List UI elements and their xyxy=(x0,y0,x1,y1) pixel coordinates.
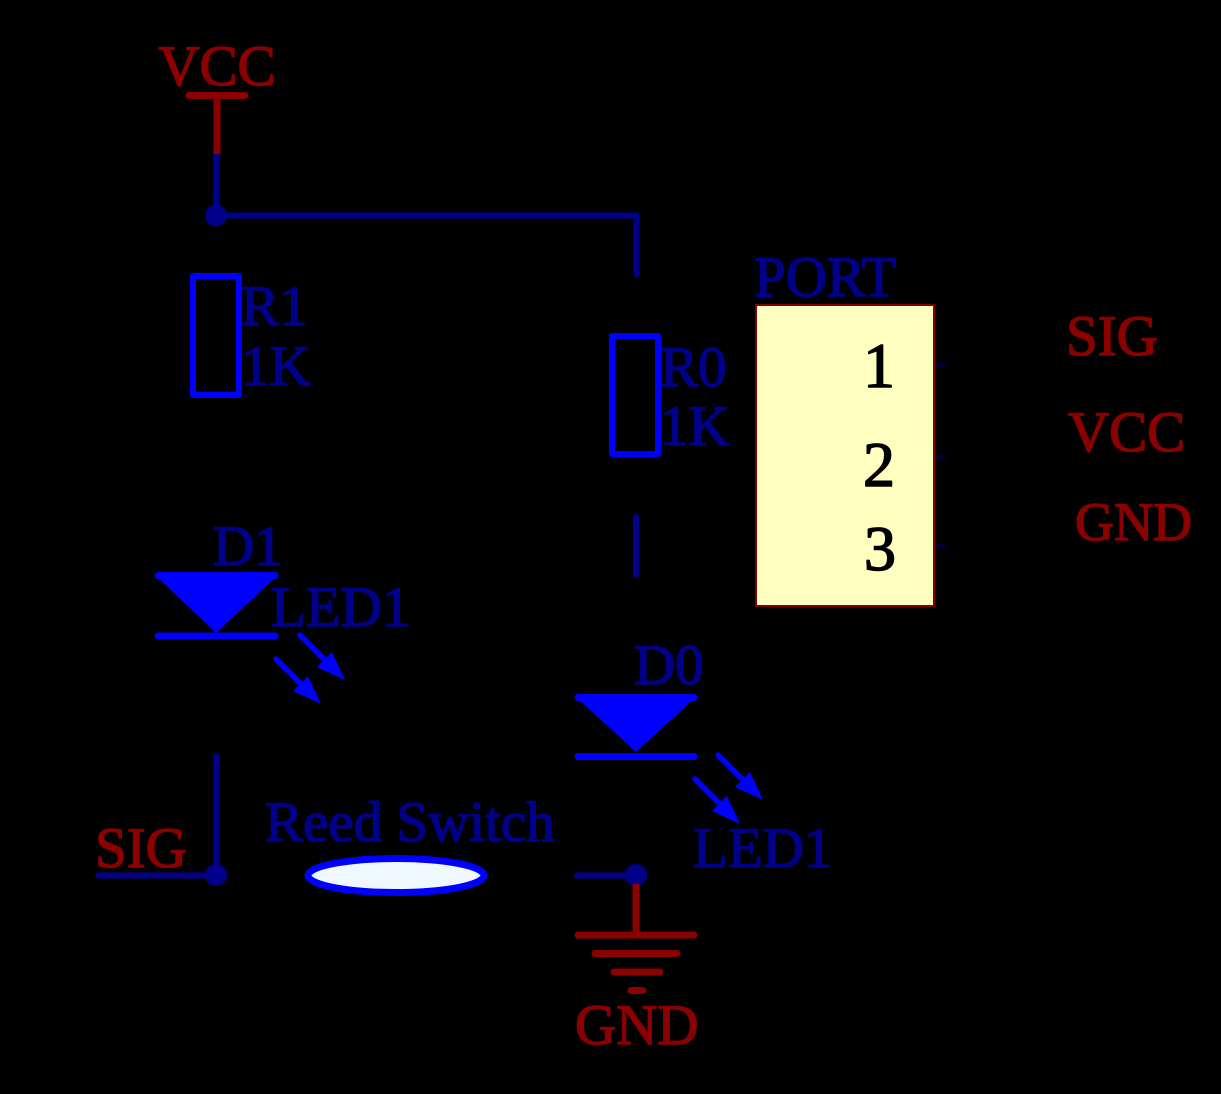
LED D0 light arrow 1 xyxy=(718,755,763,800)
pin 1 stub xyxy=(936,363,945,368)
ground stem xyxy=(633,884,640,935)
wire horizontal top rail xyxy=(216,213,638,219)
ground bar 4 xyxy=(631,987,643,994)
node GND junction xyxy=(625,864,647,886)
resistor R0 (body) xyxy=(612,336,658,454)
ground bar 3 xyxy=(614,969,660,976)
svg-text:PORT: PORT xyxy=(754,246,896,309)
wire segment below R0 xyxy=(633,517,639,575)
svg-text:LED1: LED1 xyxy=(693,817,832,880)
LED D1 triangle xyxy=(157,577,276,633)
svg-text:D1: D1 xyxy=(213,515,283,578)
svg-text:1K: 1K xyxy=(241,335,311,398)
svg-text:Reed Switch: Reed Switch xyxy=(265,791,555,854)
wire D1 cathode down to SIG node xyxy=(214,756,220,875)
svg-text:GND: GND xyxy=(575,994,699,1057)
LED D1 light arrow 2 xyxy=(276,659,321,704)
svg-text:LED1: LED1 xyxy=(271,576,410,639)
wire VCC stem to junction xyxy=(214,154,220,216)
LED D0 cathode bar xyxy=(578,753,694,760)
wire SIG horizontal xyxy=(98,873,216,879)
resistor R1 (body) xyxy=(193,276,239,395)
power symbol VCC (stem) xyxy=(214,96,221,155)
LED D1 anode bar xyxy=(158,572,275,579)
power symbol VCC (bar) xyxy=(189,92,245,99)
svg-text:VCC: VCC xyxy=(1068,401,1185,464)
svg-text:2: 2 xyxy=(863,429,895,500)
svg-text:SIG: SIG xyxy=(1066,305,1158,368)
LED D1 light arrow 1 xyxy=(300,635,345,680)
node junction at VCC rail xyxy=(205,205,227,227)
pin 2 stub xyxy=(936,455,945,460)
svg-text:3: 3 xyxy=(864,513,896,584)
connector PORT (body) xyxy=(756,305,934,606)
ground bar 2 xyxy=(595,950,677,957)
svg-text:D0: D0 xyxy=(634,634,704,697)
node SIG junction xyxy=(205,864,227,886)
wire vertical drop to R0 xyxy=(634,216,640,276)
LED D0 triangle xyxy=(578,699,694,752)
svg-text:R1: R1 xyxy=(241,275,308,338)
wire reed switch to GND node xyxy=(577,873,636,879)
LED D1 cathode bar xyxy=(158,633,275,640)
svg-text:SIG: SIG xyxy=(95,817,187,880)
svg-text:R0: R0 xyxy=(660,336,727,399)
ground bar 1 xyxy=(578,932,694,939)
svg-text:GND: GND xyxy=(1075,492,1192,552)
LED D0 light arrow 2 xyxy=(695,779,740,824)
reed switch (ellipse body) xyxy=(308,859,484,893)
pin 3 stub xyxy=(936,544,945,549)
svg-text:VCC: VCC xyxy=(158,35,275,98)
svg-text:1: 1 xyxy=(863,330,895,401)
LED D0 anode bar xyxy=(578,694,694,701)
svg-text:1K: 1K xyxy=(660,395,730,458)
